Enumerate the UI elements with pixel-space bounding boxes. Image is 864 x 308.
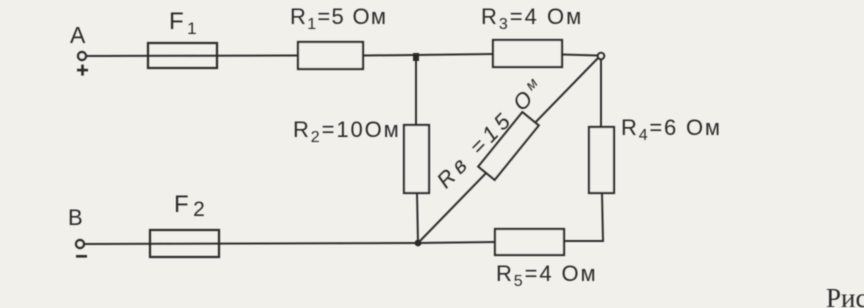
minus sign bbox=[76, 255, 87, 258]
node T2 bbox=[598, 53, 604, 59]
svg-text:R2=10Ом: R2=10Ом bbox=[293, 117, 401, 146]
node T1 bbox=[413, 53, 419, 61]
resistor Rv (diagonal) bbox=[478, 112, 538, 180]
wire R3 to node T2 bbox=[562, 55, 598, 56]
plus sign bbox=[77, 69, 88, 72]
svg-text:R4=6 Ом: R4=6 Ом bbox=[621, 115, 722, 144]
svg-text:Рис: Рис bbox=[826, 283, 864, 308]
wire R5 to node B1 bbox=[418, 242, 495, 243]
resistor R2 bbox=[404, 125, 429, 193]
resistor R5 bbox=[495, 229, 564, 255]
svg-text:А: А bbox=[70, 22, 86, 48]
wire diagonal B1 to T2 bbox=[419, 57, 599, 242]
wire B to node B1 (through F2) bbox=[85, 243, 418, 244]
wire R4 to bottom corner bbox=[564, 193, 603, 241]
svg-text:В: В bbox=[68, 205, 83, 230]
wire A to R1 (through F1) bbox=[87, 55, 298, 58]
wire R2 down to node B1 bbox=[417, 193, 418, 243]
wire R1 to node T1 bbox=[363, 54, 416, 57]
svg-text:R3=4 Ом: R3=4 Ом bbox=[481, 4, 583, 33]
wire T2 down to R4 bbox=[600, 59, 602, 127]
terminal B bbox=[76, 240, 84, 248]
svg-text:R1=5 Ом: R1=5 Ом bbox=[290, 4, 387, 33]
resistor R4 bbox=[589, 127, 614, 193]
terminal A bbox=[78, 52, 86, 60]
resistor R3 bbox=[493, 40, 562, 67]
resistor R1 bbox=[298, 42, 363, 69]
node B1 bbox=[415, 240, 422, 247]
wire node T1 to R3 bbox=[416, 54, 493, 55]
label Rv = 15 Om (handwritten) bbox=[431, 71, 551, 193]
fuse F1 bbox=[148, 43, 217, 68]
fuse F2 bbox=[150, 230, 219, 257]
svg-text:R5=4 Ом: R5=4 Ом bbox=[496, 261, 598, 290]
wire T1 down to R2 bbox=[415, 55, 417, 125]
